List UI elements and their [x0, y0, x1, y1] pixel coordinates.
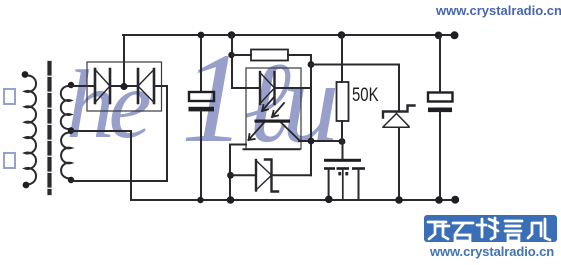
wire C2 bottom lead: [439, 112, 441, 200]
wire C3 left lead to rail: [328, 170, 330, 200]
node C1 bottom: [197, 197, 203, 203]
transformer T1 secondary top tap: [68, 82, 74, 88]
diode D2 anode plate: [153, 69, 156, 103]
wire node to zener D4: [311, 65, 399, 112]
capacitor C3 bottom electrode left: [324, 167, 335, 170]
site url top right: [436, 3, 561, 18]
transformer T1 primary top terminal: [22, 71, 29, 78]
node D4 ground: [395, 196, 403, 204]
capacitor C3 top plate: [324, 159, 361, 162]
phototransistor Q1 base bar: [255, 120, 291, 123]
node emitter branch ground: [227, 196, 235, 204]
resistor R2 body: [337, 82, 349, 121]
transformer T1 secondary lower winding: [61, 133, 71, 179]
node B cap junction: [339, 138, 346, 145]
wire C3 middle leg to rail: [342, 170, 344, 200]
wire 50K bottom lead: [341, 121, 343, 141]
site url bottom right: [430, 244, 561, 259]
wire R1 left lead: [232, 54, 251, 56]
wire D3 cathode lead: [272, 174, 312, 176]
watermark lu: [243, 45, 330, 160]
watermark square B: [3, 152, 16, 169]
wire LED cathode lead: [275, 87, 312, 89]
transformer T1 secondary bottom tap: [68, 177, 74, 183]
wire 50K top lead: [341, 35, 343, 82]
capacitor C1 negative plate: [189, 107, 215, 112]
transformer T1 secondary middle tap: [68, 127, 74, 133]
wire top rail: [123, 34, 457, 36]
zener D3 anode plate: [255, 160, 257, 191]
capacitor C2 positive plate: [428, 93, 453, 102]
logo char kuang: [428, 222, 449, 239]
optocoupler U1 box: [246, 68, 301, 149]
transformer T1 secondary upper winding: [61, 86, 71, 129]
capacitor C3 bottom electrode right: [352, 167, 365, 170]
LED U1 triangle: [260, 73, 275, 104]
wire bottom rail: [131, 199, 457, 201]
bridge rectifier box: [87, 62, 162, 111]
logo char yin: [505, 221, 522, 241]
diode D1 cathode bar: [109, 69, 112, 103]
wire rail to C1: [200, 35, 202, 92]
node C2 ground: [435, 196, 443, 204]
gate mark 1: [338, 172, 341, 175]
terminal output plus: [451, 31, 459, 39]
wire C2 top lead: [439, 35, 441, 93]
logo char shou: [477, 218, 498, 239]
node zener D3 anode: [227, 172, 234, 179]
wire emitter to ground branch: [230, 145, 246, 201]
svg-text:50K: 50K: [352, 85, 379, 106]
node R1 left: [228, 52, 234, 58]
transformer T1 core: [47, 63, 51, 193]
wire node B to capacitor C3: [342, 141, 344, 159]
wire C1 to bottom rail: [200, 111, 202, 200]
terminal output minus: [451, 196, 459, 204]
logo char shi: [453, 223, 473, 241]
diode D1 triangle: [95, 70, 110, 103]
node C2 top: [435, 32, 443, 40]
diode D2 triangle: [138, 70, 154, 103]
phototransistor Q1 emitter: [249, 123, 265, 141]
zener D3 triangle: [256, 161, 272, 191]
zener D4 cathode bar: [383, 106, 415, 118]
capacitor C3 bottom electrode middle: [337, 167, 350, 170]
optocoupler U1 box bottom edge: [244, 148, 300, 150]
logo char ji: [528, 219, 550, 240]
zener D3 cathode bar: [265, 160, 278, 192]
diode D1 anode plate: [94, 69, 97, 103]
node C3 ground: [325, 196, 333, 204]
capacitor C1 positive plate: [189, 92, 214, 101]
wire middle tap to ground rail: [71, 131, 131, 200]
LED U1 cathode bar: [273, 72, 275, 104]
wire D1 cathode to D2 cathode: [110, 85, 138, 87]
watermark 1: [181, 33, 246, 162]
capacitor C2 negative plate: [428, 108, 452, 113]
transformer T1 primary bottom terminal: [23, 182, 30, 189]
node C1 top: [198, 32, 205, 39]
wire rail to bridge center: [123, 35, 125, 87]
diode D2 cathode bar: [137, 69, 140, 103]
node feed branch top: [228, 31, 236, 39]
wire rail down to LED anode: [232, 35, 246, 88]
zener D4 triangle: [383, 114, 409, 128]
wire D2 anode to bottom tap: [71, 86, 167, 181]
node R1 to zener feed: [308, 61, 315, 68]
watermark he: [66, 56, 146, 153]
transformer T1 primary winding: [25, 76, 36, 185]
wire D3 anode lead: [230, 174, 256, 176]
wire LED anode lead: [246, 87, 260, 89]
logo box: [424, 215, 557, 242]
gate mark 2: [345, 172, 348, 175]
wire R1 right lead: [288, 55, 311, 175]
wire top tap to bridge: [71, 85, 95, 87]
node B: [308, 138, 315, 145]
LED U1 anode plate: [259, 72, 261, 104]
wire D4 anode to rail: [398, 128, 400, 200]
resistor R1 body: [251, 50, 288, 61]
watermark square A: [3, 88, 16, 105]
wire C3 right lead to rail: [358, 170, 360, 200]
phototransistor Q1 collector: [281, 123, 300, 141]
node bridge output: [120, 83, 127, 90]
light arrow 1: [262, 97, 274, 111]
wire collector node B: [299, 140, 343, 142]
light arrow 2: [272, 103, 284, 117]
node 50K top: [338, 31, 346, 39]
